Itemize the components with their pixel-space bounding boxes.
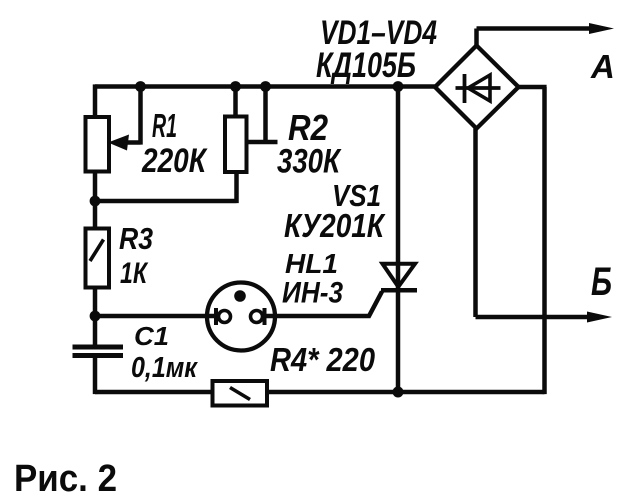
wire bottom bus left <box>95 390 213 395</box>
wire HL1 to VS1 gate <box>265 292 383 317</box>
svg-text:Рис. 2: Рис. 2 <box>14 458 117 500</box>
svg-text:R3: R3 <box>119 221 153 256</box>
wire C1 bottom lead <box>93 358 98 394</box>
svg-text:А: А <box>590 48 615 85</box>
svg-text:1К: 1К <box>120 257 149 290</box>
node VS1 cathode junction <box>393 387 404 398</box>
wire R1 bottom lead <box>93 172 98 202</box>
R1 wiper arrow <box>108 87 141 151</box>
arrow terminal B <box>587 312 612 323</box>
wire C1 top lead <box>93 316 98 345</box>
wire R2 side tap <box>247 87 278 143</box>
svg-text:HL1: HL1 <box>285 248 338 279</box>
svg-text:330К: 330К <box>277 143 342 181</box>
wire R3 top lead <box>93 201 98 229</box>
node wiper-bus junction <box>135 81 146 92</box>
wire bridge to A output <box>477 29 597 46</box>
svg-text:C1: C1 <box>134 321 169 351</box>
arrow terminal A <box>589 23 614 34</box>
node VS1 anode junction <box>393 81 404 92</box>
neon lamp HL1 <box>207 283 275 351</box>
wire to HL1 <box>95 314 216 319</box>
wire VS1 cathode <box>396 290 401 392</box>
wire right riser <box>519 87 547 394</box>
capacitor C1 <box>73 347 124 356</box>
resistor R3 <box>86 229 110 288</box>
wire top bus <box>95 84 435 89</box>
wire R3 bottom lead <box>93 288 98 317</box>
svg-text:R4* 220: R4* 220 <box>270 341 376 378</box>
wire bottom bus right <box>267 390 545 395</box>
svg-text:ИН-3: ИН-3 <box>282 277 343 310</box>
svg-text:Б: Б <box>591 260 612 304</box>
svg-text:220К: 220К <box>141 142 208 180</box>
svg-text:КД105Б: КД105Б <box>316 46 416 85</box>
node R1-R3 junction <box>90 196 101 207</box>
wire bridge to B output <box>476 129 591 318</box>
svg-text:R1: R1 <box>152 107 177 144</box>
thyristor VS1 <box>381 264 417 291</box>
resistor R2 <box>225 117 247 173</box>
wire R2 top lead <box>233 87 238 117</box>
potentiometer R1 <box>86 117 110 172</box>
resistor R4 <box>213 381 268 406</box>
wire R1 top lead <box>93 84 98 117</box>
wire R1-R2 bottom link <box>95 172 237 203</box>
node R2 top junction <box>230 81 241 92</box>
diode bridge VD1-VD4 <box>435 46 519 129</box>
node R3-C1-HL1 junction <box>90 311 101 322</box>
svg-text:КУ201К: КУ201К <box>284 207 386 244</box>
node R2 tap junction <box>260 81 271 92</box>
wire VS1 anode <box>396 87 401 289</box>
svg-text:0,1мк: 0,1мк <box>131 352 198 384</box>
